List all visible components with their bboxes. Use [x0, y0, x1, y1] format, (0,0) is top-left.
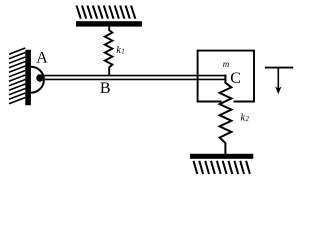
- svg-text:2: 2: [245, 115, 249, 123]
- pin at A: [36, 74, 43, 81]
- ceiling support hatching: [77, 6, 136, 19]
- wall bar: [25, 50, 31, 105]
- spring k1: [105, 27, 113, 76]
- label k1: [116, 45, 124, 56]
- spring k2: [220, 75, 232, 155]
- svg-text:C: C: [230, 70, 241, 87]
- label k2: [241, 113, 250, 124]
- ceiling support bar: [76, 21, 142, 26]
- svg-text:B: B: [100, 80, 111, 97]
- beam A-B-C (double line): [40, 76, 227, 80]
- mass block m: [198, 51, 254, 102]
- pivot bracket semicircle at A: [31, 67, 44, 93]
- svg-text:m: m: [223, 59, 230, 69]
- ground support bar: [190, 154, 253, 159]
- wall hatching: [9, 48, 25, 104]
- svg-text:A: A: [36, 50, 48, 67]
- displacement arrow (down): [265, 68, 293, 95]
- ground support hatching: [194, 161, 250, 174]
- svg-text:1: 1: [121, 48, 125, 56]
